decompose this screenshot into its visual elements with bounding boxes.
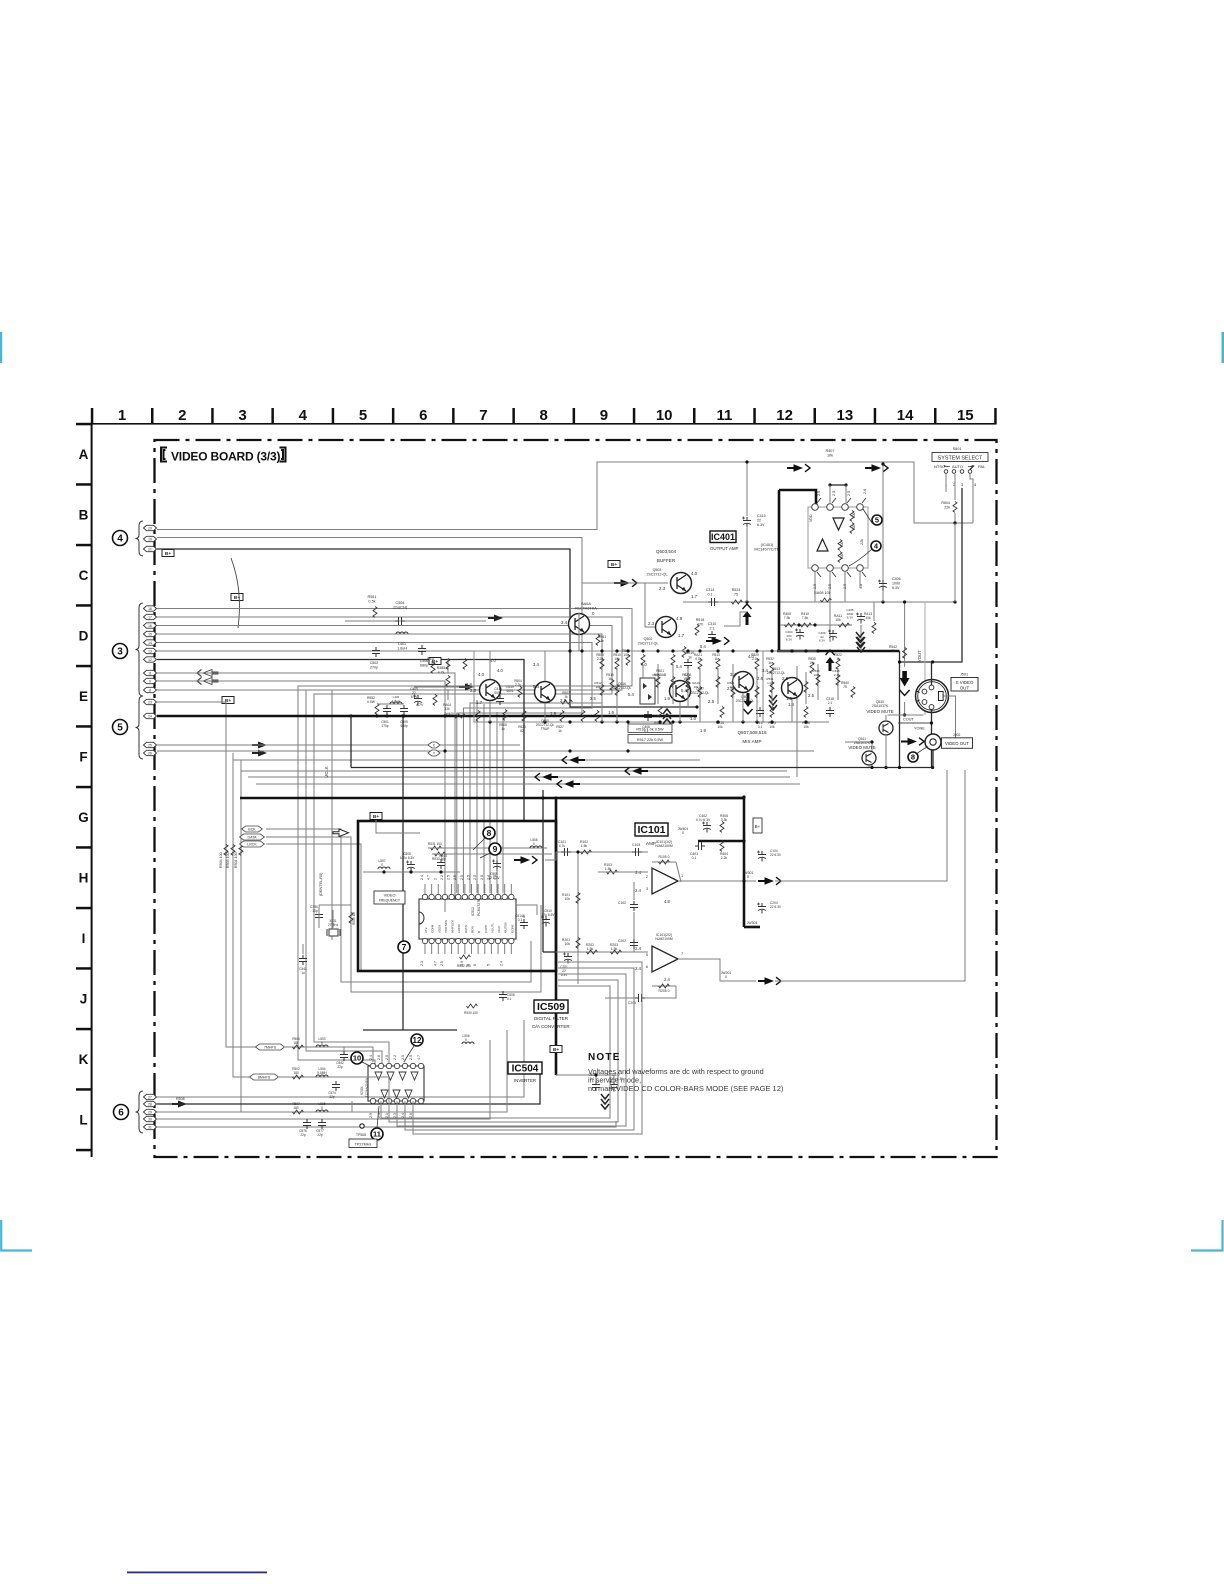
resistor R507b	[562, 700, 573, 704]
svg-text:2.8: 2.8	[470, 688, 477, 693]
svg-text:2.4: 2.4	[635, 888, 641, 893]
svg-text:2: 2	[433, 878, 437, 880]
ref circle 5 at IC401	[872, 515, 882, 525]
ground chevup mix	[663, 709, 671, 724]
capacitor C506	[418, 645, 426, 655]
crystal X501	[329, 929, 338, 936]
svg-text:4.0: 4.0	[748, 654, 754, 659]
capacitor C401b	[695, 842, 705, 850]
connector pin 20	[144, 525, 157, 530]
wire pin26 rail	[157, 750, 814, 752]
capacitor C542	[340, 1051, 348, 1061]
connector pin 21	[144, 546, 157, 551]
ground chev	[769, 695, 777, 710]
VIDEO FREQUENCY box	[374, 891, 405, 904]
wire x955 drop	[954, 523, 956, 602]
svg-text:6.3V: 6.3V	[411, 695, 418, 699]
stub wires mix2	[601, 668, 603, 722]
svg-text:3.4: 3.4	[561, 620, 568, 625]
resistor R530	[467, 1004, 478, 1008]
arrow into buffer	[614, 579, 637, 587]
svg-text:VCAI: VCAI	[497, 926, 501, 933]
svg-text:0.1: 0.1	[758, 725, 763, 729]
svg-text:YOUT: YOUT	[917, 650, 922, 662]
resistor R533	[435, 852, 446, 856]
junction	[745, 600, 748, 603]
svg-text:8: 8	[487, 828, 492, 838]
svg-text:5.4: 5.4	[533, 684, 540, 689]
B+ box bottom	[550, 1046, 562, 1053]
svg-text:2.6: 2.6	[757, 676, 764, 681]
svg-text:22: 22	[757, 518, 761, 522]
svg-text:R518: R518	[696, 618, 705, 622]
resistor R502c	[293, 1075, 304, 1079]
svg-text:14: 14	[148, 641, 152, 645]
resistor R525	[658, 707, 662, 718]
svg-text:4.0: 4.0	[490, 658, 496, 663]
wire b+ drop	[376, 820, 420, 833]
wire dac feeder 4	[496, 712, 498, 893]
svg-text:0.1: 0.1	[708, 592, 713, 596]
svg-text:10k: 10k	[694, 685, 699, 689]
svg-text:6: 6	[646, 965, 648, 969]
svg-text:22 6.3V: 22 6.3V	[770, 853, 782, 857]
svg-text:10: 10	[353, 1054, 361, 1063]
svg-text:1.9: 1.9	[664, 696, 670, 701]
svg-text:9: 9	[493, 844, 498, 854]
crystal wires	[319, 905, 351, 912]
svg-text:R503 100: R503 100	[226, 852, 230, 868]
thick rail y651	[777, 650, 900, 653]
wire pin30	[157, 1040, 490, 1119]
capacitor C406	[882, 464, 884, 602]
svg-text:NJM2100M: NJM2100M	[655, 937, 673, 941]
svg-text:no mark:: no mark:	[588, 1084, 616, 1093]
wire C415 drop	[746, 462, 748, 516]
filter2 top rail	[377, 703, 404, 705]
svg-text:5: 5	[486, 964, 490, 966]
svg-text:22k: 22k	[860, 539, 864, 545]
arrow mid	[459, 684, 474, 691]
svg-text:0: 0	[751, 925, 753, 929]
svg-text:3.3k: 3.3k	[721, 818, 728, 822]
svg-text:2.4: 2.4	[369, 1055, 373, 1060]
resistor R501 100	[239, 845, 243, 856]
wire pin29	[157, 1030, 507, 1112]
IC401 bottom pins	[812, 565, 819, 572]
wire svideo hook	[942, 696, 956, 748]
svg-text:10: 10	[656, 407, 673, 424]
connector group 5 brace	[136, 696, 144, 759]
resistor R522	[836, 659, 840, 670]
svg-text:C406: C406	[892, 577, 901, 581]
wire RCA rail (dark)	[351, 767, 933, 769]
connector pin 31	[144, 1124, 157, 1129]
test point TP508	[360, 1124, 364, 1128]
svg-text:0: 0	[473, 964, 477, 966]
svg-text:4.7u 6.3V: 4.7u 6.3V	[696, 818, 711, 822]
capacitor C404	[795, 629, 804, 640]
ref circle 12	[411, 1034, 423, 1046]
svg-text:180: 180	[293, 1071, 299, 1075]
svg-text:1k: 1k	[729, 685, 733, 689]
resistor R507c	[293, 1110, 304, 1114]
svg-text:4.7k: 4.7k	[438, 670, 445, 674]
connector pin 9	[144, 678, 157, 683]
capacitor C314	[708, 598, 718, 606]
svg-text:VIDEO MUTE: VIDEO MUTE	[848, 745, 875, 750]
switch wire 4 loop	[970, 474, 973, 523]
svg-text:VIDEO MUTE: VIDEO MUTE	[866, 709, 893, 714]
IC509 top pin circles	[422, 894, 427, 899]
svg-text:S601: S601	[953, 447, 962, 451]
resistor R105 fb	[652, 861, 676, 863]
ground chev	[601, 1094, 609, 1109]
svg-text:22 6.3V: 22 6.3V	[770, 905, 782, 909]
svg-text:4.0: 4.0	[641, 662, 647, 667]
svg-text:10k: 10k	[614, 657, 620, 661]
capacitor C406A	[856, 613, 865, 624]
svg-text:10k: 10k	[827, 454, 833, 458]
svg-text:VDD: VDD	[809, 514, 813, 522]
capacitor C310	[708, 631, 716, 641]
svg-text:TP27MHz: TP27MHz	[355, 1143, 372, 1147]
arrow up power	[743, 604, 752, 625]
svg-text:2: 2	[178, 407, 186, 424]
ground chev	[856, 632, 864, 647]
wire bus bit 15	[157, 634, 602, 893]
svg-text:C310: C310	[708, 622, 717, 626]
IC401 top pins	[812, 504, 819, 511]
wire dac feeder 3	[489, 708, 491, 893]
ground chevrons up	[826, 650, 835, 671]
svg-text:B: B	[79, 508, 89, 523]
IC401 boxed label	[710, 531, 736, 543]
svg-text:4.7: 4.7	[427, 875, 431, 880]
capacitor C417	[756, 707, 764, 717]
svg-text:1: 1	[681, 874, 683, 878]
svg-text:VIDEO BOARD (3/3): VIDEO BOARD (3/3)	[171, 450, 280, 464]
mute transistor Q511	[862, 751, 876, 765]
svg-text:1k: 1k	[836, 657, 840, 661]
svg-text:75: 75	[843, 685, 847, 689]
stub wires mix	[489, 651, 491, 679]
svg-text:CAPP: CAPP	[484, 925, 488, 933]
svg-text:300: 300	[840, 541, 844, 547]
svg-text:4.7: 4.7	[433, 961, 437, 966]
connector group 3 brace	[136, 603, 144, 696]
svg-text:7MHFS: 7MHFS	[264, 1046, 277, 1050]
svg-text:4.7k: 4.7k	[695, 657, 701, 661]
svg-text:1.8uH: 1.8uH	[392, 699, 400, 703]
svg-text:2SA1037K: 2SA1037K	[872, 704, 889, 708]
svg-text:7: 7	[402, 942, 407, 952]
inductor L401	[396, 632, 408, 634]
svg-text:MC14577C/TD: MC14577C/TD	[754, 548, 780, 552]
wire LRCK	[266, 844, 361, 972]
svg-text:D/A CONVERTER: D/A CONVERTER	[532, 1024, 570, 1029]
transistor Q507	[670, 681, 691, 702]
svg-text:XT2: XT2	[424, 927, 428, 933]
svg-text:75: 75	[734, 592, 738, 596]
junction	[401, 714, 404, 717]
svg-text:R551: R551	[367, 595, 376, 599]
thick bus mid	[240, 797, 744, 800]
svg-text:19: 19	[148, 537, 152, 541]
transistor Q501	[569, 614, 590, 635]
chev 8MHFS	[250, 1074, 279, 1080]
B+ supply box	[370, 813, 382, 820]
resistor R413	[872, 623, 876, 634]
ref circle 5	[113, 720, 128, 735]
svg-text:1.5k: 1.5k	[605, 867, 612, 871]
switch contacts	[944, 470, 948, 474]
IC509 top stubs	[424, 884, 426, 894]
svg-text:1.0: 1.0	[690, 716, 697, 721]
resistor R518	[695, 625, 699, 636]
inductor L503	[316, 1045, 328, 1047]
wire inverter loop 5	[413, 962, 642, 1134]
ref circle 3	[113, 644, 128, 659]
svg-text:2.0: 2.0	[401, 1055, 405, 1060]
capacitor C103	[632, 848, 642, 856]
svg-text:B: B	[477, 931, 481, 933]
connector pin 17	[144, 614, 157, 619]
bundle arc group3	[231, 558, 239, 628]
svg-text:COUT: COUT	[903, 718, 914, 722]
svg-text:1k: 1k	[564, 695, 568, 699]
boxed label R516	[628, 724, 672, 733]
svg-text:2SC2712-QL: 2SC2712-QL	[736, 699, 755, 703]
svg-text:300: 300	[840, 553, 844, 559]
resistor R513	[716, 659, 720, 670]
arrow video down	[900, 671, 910, 687]
resistor R101	[576, 893, 580, 904]
svg-text:OUTPUT AMP: OUTPUT AMP	[710, 546, 739, 551]
B+ supply box	[608, 561, 620, 568]
svg-text:0.1: 0.1	[518, 918, 523, 922]
network RB01	[640, 678, 655, 704]
resistor R542	[904, 602, 906, 667]
IC509 bottom pin circles	[422, 938, 427, 943]
switch wire 3 (dark)	[900, 488, 963, 662]
svg-text:IC101: IC101	[637, 824, 665, 836]
svg-text:7.5k: 7.5k	[784, 616, 791, 620]
wire r531	[428, 847, 547, 849]
wire cout	[888, 714, 924, 716]
svg-text:3.4: 3.4	[762, 668, 768, 673]
IC504 boxed label	[508, 1062, 542, 1074]
svg-text:GDN6: GDN6	[510, 924, 514, 933]
capacitor CT503	[315, 911, 323, 921]
capacitor C203	[635, 994, 645, 1002]
connector pin 18	[144, 606, 157, 611]
wire opamp2 in	[556, 951, 648, 953]
label C chevron	[428, 742, 440, 748]
resistor R524	[732, 600, 743, 604]
capacitor C415	[742, 517, 751, 528]
svg-text:28: 28	[148, 1102, 152, 1106]
svg-text:C202: C202	[618, 939, 626, 943]
wire dac feeder 1	[476, 700, 478, 893]
svg-text:22 6.3V: 22 6.3V	[489, 876, 501, 880]
svg-text:2.5: 2.5	[466, 875, 470, 880]
wire return 4	[256, 783, 800, 785]
svg-text:1.8: 1.8	[788, 702, 795, 707]
wire inverter loop 3	[397, 974, 626, 1126]
wire bus bit 17	[157, 617, 622, 1066]
wire cap rail	[363, 871, 460, 873]
svg-text:C: C	[79, 568, 89, 583]
B+ supply box	[162, 550, 174, 557]
B+ supply box	[222, 697, 234, 704]
svg-text:7.5k: 7.5k	[802, 616, 809, 620]
svg-text:10p: 10p	[312, 909, 318, 913]
label YOUT	[924, 602, 926, 715]
resistor RA16	[720, 707, 724, 718]
svg-text:6.3V: 6.3V	[757, 523, 765, 527]
resistor R527	[560, 711, 564, 722]
svg-text:6.3V: 6.3V	[892, 586, 900, 590]
svg-text:22p: 22p	[337, 1065, 343, 1069]
resistor JW405b	[455, 714, 466, 718]
svg-text:FREQUENCY: FREQUENCY	[379, 899, 401, 903]
svg-text:J: J	[80, 992, 88, 1007]
svg-text:32k: 32k	[444, 707, 450, 711]
svg-text:18: 18	[148, 607, 152, 611]
resistor R102	[581, 850, 592, 854]
resistor R512	[626, 655, 630, 666]
grid column ruler (top) with ticks and numbers 1-15	[91, 408, 997, 425]
svg-text:0: 0	[533, 842, 535, 846]
svg-text:3: 3	[646, 887, 648, 891]
resistor R506c	[293, 1045, 304, 1049]
schematic dash-dot border	[155, 440, 997, 1157]
svg-text:BCKI: BCKI	[470, 926, 474, 933]
svg-text:C103: C103	[632, 843, 640, 847]
IC509 outline	[419, 899, 516, 939]
svg-text:B+: B+	[611, 562, 617, 568]
svg-text:D: D	[79, 629, 89, 644]
svg-text:4: 4	[299, 407, 308, 424]
arrow buffer out	[706, 637, 729, 645]
label BCK chevron	[242, 826, 263, 832]
svg-text:1.0k: 1.0k	[767, 681, 773, 685]
svg-text:23: 23	[148, 700, 152, 704]
ref circle 9b	[489, 843, 501, 855]
wire q510	[885, 715, 887, 721]
wire r533	[432, 853, 552, 855]
svg-text:MIX AMP: MIX AMP	[742, 739, 761, 744]
wire yone (dark)	[898, 722, 933, 724]
svg-text:6.3V: 6.3V	[847, 616, 853, 620]
svg-text:1k: 1k	[608, 677, 612, 681]
resistor R551	[373, 607, 377, 618]
svg-text:4.9: 4.9	[676, 616, 683, 621]
wire bus bit 14	[157, 643, 592, 894]
svg-text:0.1: 0.1	[507, 997, 512, 1001]
svg-text:10k: 10k	[809, 661, 815, 665]
resistor R529	[686, 677, 690, 688]
svg-text:2.5: 2.5	[832, 491, 836, 496]
resistor R203	[611, 950, 622, 954]
svg-text:I: I	[82, 931, 86, 946]
IC504 outline	[368, 1066, 424, 1101]
connector pin 29	[144, 1109, 157, 1114]
transistor Q510t	[535, 682, 556, 703]
more mix resistors	[446, 659, 450, 670]
svg-text:R604: R604	[941, 501, 950, 505]
svg-text:3: 3	[238, 407, 246, 424]
svg-text:0: 0	[321, 1106, 323, 1110]
resistor R536	[804, 707, 808, 718]
capacitor C506b	[499, 991, 507, 1001]
switch wire 2	[954, 474, 956, 500]
wire emitter	[683, 601, 955, 603]
capacitor C508	[406, 861, 415, 872]
svg-text:IC401: IC401	[711, 532, 735, 542]
svg-text:F: F	[79, 750, 87, 765]
resistor R503 100	[231, 845, 235, 856]
svg-text:R407: R407	[825, 449, 834, 453]
svg-text:NOTE: NOTE	[588, 1052, 621, 1063]
capacitor C201	[563, 953, 572, 964]
svg-text:TP508: TP508	[356, 1133, 366, 1137]
svg-text:2.2k: 2.2k	[721, 856, 728, 860]
wire out1 cont	[775, 770, 947, 881]
svg-text:22p: 22p	[317, 1133, 323, 1137]
IC504 bottom pins	[370, 1098, 375, 1103]
svg-text:2.5: 2.5	[782, 676, 789, 681]
resistor R526	[522, 711, 526, 722]
svg-text:MCLK: MCLK	[324, 766, 329, 778]
svg-text:27: 27	[148, 1095, 152, 1099]
svg-text:R501 100: R501 100	[234, 852, 238, 868]
wire opamp1 in	[556, 851, 648, 853]
svg-text:PAL: PAL	[978, 464, 986, 469]
svg-text:Q502: Q502	[644, 637, 653, 641]
svg-text:2: 2	[646, 875, 648, 879]
svg-text:22k: 22k	[944, 505, 950, 509]
svg-text:1k: 1k	[558, 729, 562, 733]
connector pin 15	[144, 631, 157, 636]
svg-text:10k: 10k	[565, 942, 571, 946]
svg-text:LRCK: LRCK	[247, 843, 257, 847]
capacitor C509b	[492, 860, 501, 871]
ref circle 8b	[483, 827, 495, 839]
svg-text:GDN8: GDN8	[431, 924, 435, 933]
wire pin19	[157, 538, 582, 655]
svg-text:5.4: 5.4	[676, 664, 682, 669]
resistor R552	[375, 704, 379, 715]
wire mix left	[414, 686, 474, 688]
title VIDEO BOARD (3/3)	[161, 448, 167, 462]
mix rail top ext	[763, 650, 818, 652]
svg-text:10k: 10k	[865, 616, 871, 620]
svg-text:C415: C415	[757, 514, 766, 518]
svg-text:10k: 10k	[596, 685, 601, 689]
svg-text:R531 100: R531 100	[428, 842, 442, 846]
svg-text:1.5k: 1.5k	[611, 947, 618, 951]
wire buffer link	[645, 583, 655, 627]
svg-text:SYSTEM SELECT: SYSTEM SELECT	[938, 456, 983, 462]
svg-text:270p: 270p	[370, 665, 378, 669]
capacitor C543	[437, 859, 445, 869]
ref circle 4 at IC401	[871, 541, 881, 551]
capacitor C402	[702, 822, 711, 833]
svg-text:R205 0: R205 0	[659, 989, 670, 993]
RCA jack J502	[925, 734, 941, 750]
